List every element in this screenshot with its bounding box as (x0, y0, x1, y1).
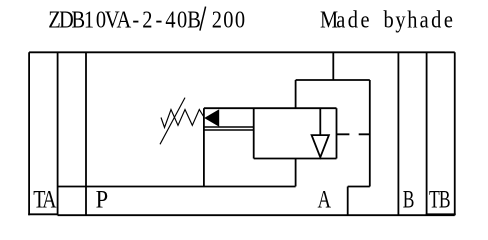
valve envelope top edge (204, 107, 337, 109)
top rail to plate top connector (332, 52, 334, 80)
relief flow arrow (filled) (204, 109, 219, 126)
check valve box bottom edge (254, 158, 337, 160)
check valve poppet triangle (312, 135, 329, 157)
adjustability arrow line (160, 98, 185, 145)
check valve box right edge (336, 108, 338, 158)
top rail horizontal (296, 79, 370, 81)
B column left line (397, 52, 399, 215)
title slash (200, 7, 206, 31)
svg-text:A: A (318, 185, 332, 213)
check valve stem (319, 108, 321, 135)
TB column left line (426, 52, 428, 215)
relief valve box lower line 2 (204, 129, 254, 131)
relief valve box lower line 1 (204, 126, 254, 128)
outer plate bottom edge (58, 214, 455, 216)
valve-box bottom to P channel connector (295, 159, 297, 187)
svg-text:ZDB10VA-2-40B: ZDB10VA-2-40B (48, 6, 201, 33)
svg-text:200: 200 (212, 6, 245, 33)
port row top line A-step segment (348, 186, 370, 188)
svg-text:TB: TB (429, 185, 451, 213)
svg-text:Made byhade: Made byhade (320, 6, 453, 33)
svg-text:B: B (403, 185, 415, 213)
A channel riser line (369, 80, 371, 187)
TA column right line (57, 52, 59, 215)
svg-text:TA: TA (33, 185, 57, 213)
valve left edge down to P line (203, 108, 205, 186)
rail to valve-box connector (295, 80, 297, 108)
check valve box left edge (253, 108, 255, 158)
port row top line left segment (58, 186, 296, 188)
A channel step vertical (347, 187, 349, 216)
TA column bottom edge (28, 213, 58, 215)
svg-text:P: P (96, 186, 109, 213)
spring zigzag (161, 110, 204, 128)
pilot dashed line (337, 133, 370, 135)
outer plate rectangle (29, 52, 455, 215)
P column left line (85, 52, 87, 215)
TB column bottom edge (426, 213, 456, 215)
